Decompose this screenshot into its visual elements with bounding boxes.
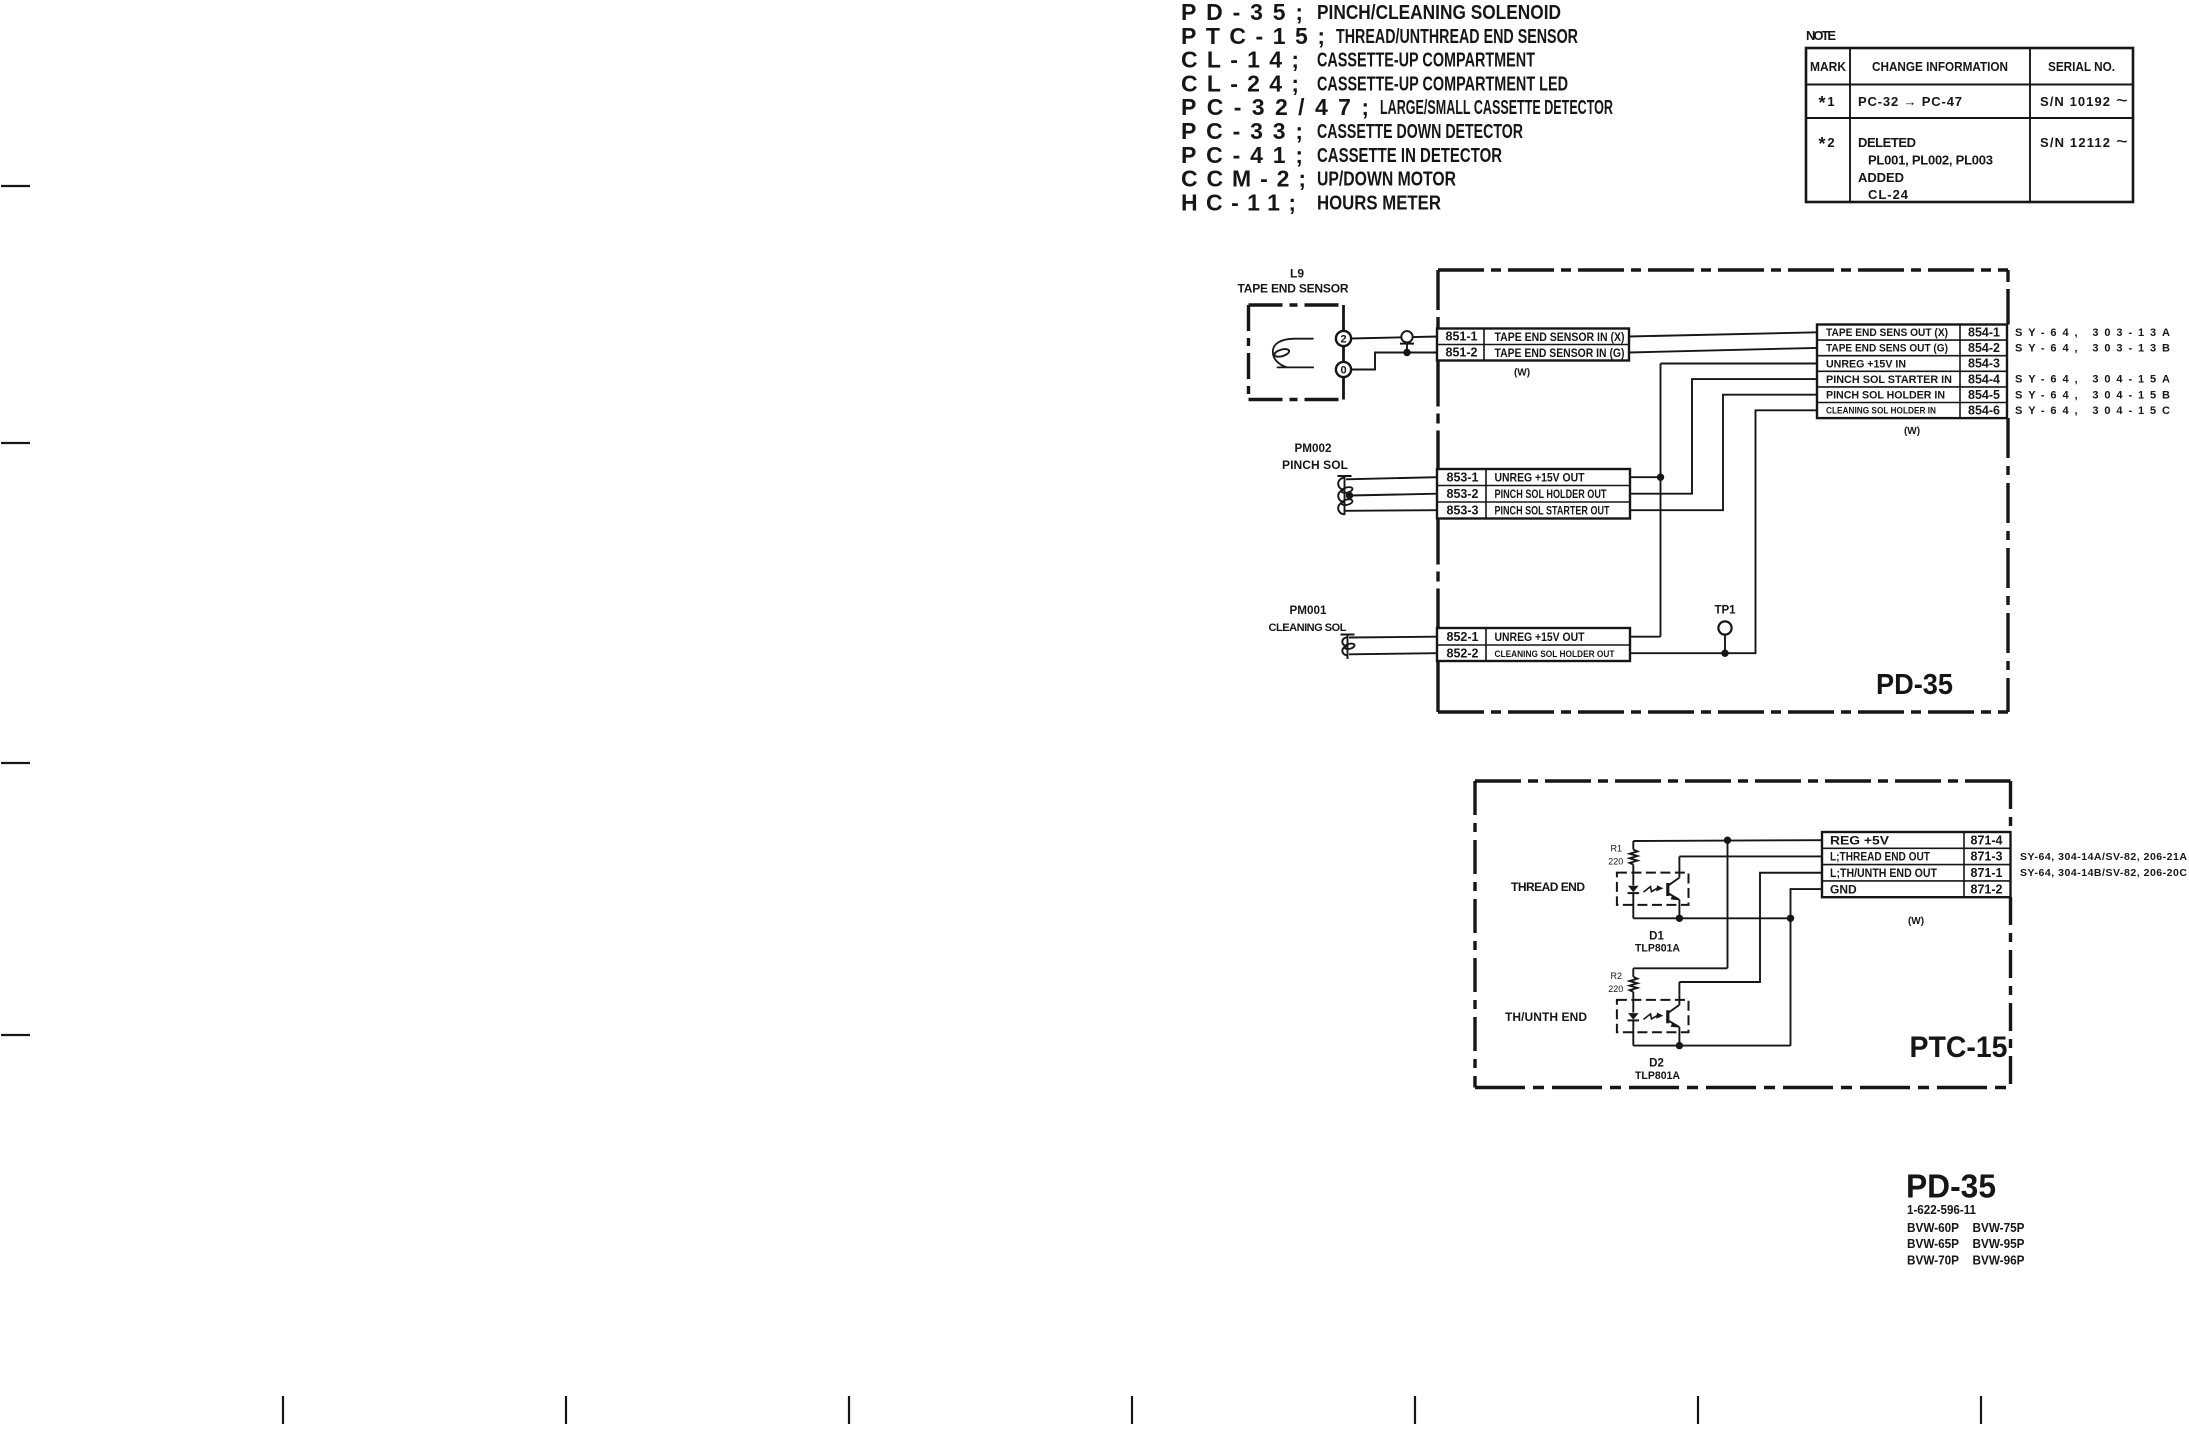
svg-text:L;TH/UNTH END OUT: L;TH/UNTH END OUT — [1830, 866, 1938, 880]
svg-text:UNREG +15V OUT: UNREG +15V OUT — [1495, 470, 1586, 484]
junction D1 emitter — [1676, 915, 1683, 922]
wire 853-3 to 854-5 — [1630, 395, 1817, 511]
connector 853 — [1437, 469, 1630, 519]
svg-text:CASSETTE IN DETECTOR: CASSETTE IN DETECTOR — [1317, 145, 1502, 167]
optocoupler D1 TLP801A — [1617, 873, 1689, 905]
svg-text:852-1: 852-1 — [1447, 630, 1479, 644]
PD-35 board outline — [1438, 268, 2008, 271]
svg-text:CASSETTE-UP COMPARTMENT: CASSETTE-UP COMPARTMENT — [1317, 50, 1535, 72]
wire REG +5V to R1 — [1633, 839, 1822, 842]
svg-text:R1: R1 — [1611, 844, 1623, 854]
svg-text:871-1: 871-1 — [1971, 866, 2003, 880]
svg-text:CLEANING SOL HOLDER IN: CLEANING SOL HOLDER IN — [1826, 406, 1936, 417]
junction GND riser at D1 bottom — [1787, 915, 1794, 922]
svg-text:*: * — [1818, 134, 1825, 154]
svg-text:PL001, PL002, PL003: PL001, PL002, PL003 — [1868, 153, 1993, 168]
svg-text:TLP801A: TLP801A — [1635, 943, 1680, 955]
svg-text:ADDED: ADDED — [1858, 170, 1904, 185]
svg-text:MARK: MARK — [1810, 59, 1847, 74]
svg-text:871-2: 871-2 — [1971, 882, 2003, 896]
wire GND riser — [1791, 889, 1823, 1046]
svg-text:2: 2 — [1340, 334, 1346, 346]
svg-text:1: 1 — [1827, 94, 1834, 109]
svg-text:PINCH SOL STARTER OUT: PINCH SOL STARTER OUT — [1495, 503, 1610, 517]
svg-text:D1: D1 — [1649, 930, 1664, 942]
wire terminal 0 to 851-2 — [1351, 353, 1438, 370]
svg-text:854-2: 854-2 — [1968, 341, 2000, 355]
svg-text:CASSETTE DOWN DETECTOR: CASSETTE DOWN DETECTOR — [1317, 121, 1523, 143]
svg-text:CASSETTE-UP COMPARTMENT LED: CASSETTE-UP COMPARTMENT LED — [1317, 73, 1568, 95]
svg-text:PD-35: PD-35 — [1876, 669, 1953, 701]
svg-text:853-1: 853-1 — [1447, 470, 1479, 484]
svg-text:851-2: 851-2 — [1446, 346, 1478, 360]
wire REG +5V down to R2 — [1727, 840, 1729, 968]
svg-text:(W): (W) — [1514, 368, 1530, 379]
wire terminal 2 to 851-1 — [1351, 337, 1438, 339]
svg-text:0: 0 — [1340, 365, 1346, 377]
connector 851 — [1437, 329, 1629, 361]
solenoid PM002 coil — [1344, 476, 1346, 515]
wire 852-2 to 854-6 — [1630, 410, 1817, 653]
wire 851-2 to 854-2 — [1629, 348, 1817, 353]
PTC-15 board outline — [1475, 779, 2011, 782]
svg-text:PM002: PM002 — [1295, 441, 1332, 455]
junction on PM002 center tap — [1346, 492, 1353, 499]
junction on 851-2 wire — [1403, 349, 1410, 356]
svg-text:TP1: TP1 — [1714, 605, 1736, 617]
svg-text:PINCH SOL HOLDER IN: PINCH SOL HOLDER IN — [1826, 390, 1945, 402]
svg-text:L9: L9 — [1290, 267, 1304, 281]
wire UNREG +15V bus (854-3 to 853-1 to 852-1) — [1661, 363, 1818, 365]
svg-text:SERIAL NO.: SERIAL NO. — [2048, 59, 2115, 74]
svg-text:SY-64, 304-14B/SV-82, 206-20C: SY-64, 304-14B/SV-82, 206-20C — [2020, 867, 2187, 879]
svg-text:UP/DOWN MOTOR: UP/DOWN MOTOR — [1317, 169, 1456, 191]
wire D1 collector to 871-3 — [1679, 855, 1822, 857]
svg-text:S/N 12112: S/N 12112 — [2040, 135, 2110, 150]
optocoupler D2 TLP801A — [1617, 1000, 1689, 1032]
lamp L9 enclosure — [1249, 303, 1344, 306]
solenoid PM001 coil — [1347, 635, 1349, 660]
junction REG +5V branch — [1724, 837, 1731, 844]
svg-text:BVW-65P: BVW-65P — [1907, 1237, 1959, 1251]
svg-text:854-1: 854-1 — [1968, 326, 2000, 340]
svg-text:BVW-95P: BVW-95P — [1973, 1237, 2025, 1251]
junction TP1 on 852-2 wire — [1721, 650, 1728, 657]
svg-text:CLEANING SOL HOLDER OUT: CLEANING SOL HOLDER OUT — [1495, 649, 1615, 660]
svg-text:R2: R2 — [1611, 971, 1623, 981]
svg-text:TAPE END SENSOR IN (G): TAPE END SENSOR IN (G) — [1495, 346, 1625, 360]
svg-text:PTC-15: PTC-15 — [1910, 1031, 2008, 1064]
svg-text:PINCH SOL HOLDER OUT: PINCH SOL HOLDER OUT — [1495, 487, 1607, 501]
svg-text:HOURS METER: HOURS METER — [1317, 192, 1441, 214]
svg-text:THREAD/UNTHREAD END SENSOR: THREAD/UNTHREAD END SENSOR — [1336, 26, 1578, 48]
wire D1 bottom to GND riser — [1633, 917, 1790, 919]
svg-text:871-3: 871-3 — [1971, 850, 2003, 864]
svg-text:220: 220 — [1608, 984, 1623, 994]
svg-text:853-3: 853-3 — [1447, 503, 1479, 517]
svg-text:TAPE END SENSOR IN (X): TAPE END SENSOR IN (X) — [1495, 330, 1625, 344]
svg-text:PD-35: PD-35 — [1906, 1168, 1996, 1205]
svg-text:D2: D2 — [1649, 1058, 1664, 1070]
svg-text:PINCH/CLEANING SOLENOID: PINCH/CLEANING SOLENOID — [1317, 2, 1561, 24]
svg-text:854-5: 854-5 — [1968, 388, 2000, 402]
chassis pickup symbol — [1401, 331, 1412, 342]
wire D2 bottom to GND riser — [1633, 1045, 1790, 1047]
svg-text:LARGE/SMALL CASSETTE DETECTOR: LARGE/SMALL CASSETTE DETECTOR — [1380, 97, 1613, 119]
svg-text:SY-64, 304-14A/SV-82, 206-21A: SY-64, 304-14A/SV-82, 206-21A — [2020, 851, 2187, 863]
terminal 0 — [1336, 362, 1351, 377]
svg-text:PM001: PM001 — [1290, 603, 1327, 617]
connector 854 — [1817, 325, 2007, 419]
terminal 2 — [1336, 331, 1351, 346]
svg-text:TAPE END SENS OUT (X): TAPE END SENS OUT (X) — [1826, 327, 1948, 339]
svg-text:854-4: 854-4 — [1968, 372, 2000, 386]
svg-text:DELETED: DELETED — [1858, 135, 1916, 150]
svg-text:2: 2 — [1827, 135, 1834, 150]
wire 853-2 to 854-4 — [1630, 379, 1817, 494]
svg-text:UNREG +15V OUT: UNREG +15V OUT — [1495, 630, 1586, 644]
svg-text:871-4: 871-4 — [1971, 833, 2003, 847]
svg-text:(W): (W) — [1904, 426, 1920, 437]
svg-text:(W): (W) — [1908, 916, 1924, 927]
svg-text:220: 220 — [1608, 857, 1623, 867]
svg-text:TLP801A: TLP801A — [1635, 1070, 1680, 1082]
svg-text:NOTE: NOTE — [1806, 28, 1836, 43]
svg-text:852-2: 852-2 — [1447, 646, 1479, 660]
wires PM001 to 852 — [1349, 636, 1437, 639]
svg-text:854-3: 854-3 — [1968, 357, 2000, 371]
svg-text:~: ~ — [2116, 131, 2128, 153]
svg-text:BVW-96P: BVW-96P — [1973, 1253, 2025, 1267]
svg-text:GND: GND — [1830, 882, 1857, 896]
junction 853-1 on +15V bus — [1657, 474, 1664, 481]
svg-text:PC-32 → PC-47: PC-32 → PC-47 — [1858, 94, 1962, 109]
connector 871 — [1822, 832, 2011, 897]
svg-text:CHANGE INFORMATION: CHANGE INFORMATION — [1872, 59, 2008, 74]
svg-text:CLEANING SOL: CLEANING SOL — [1269, 622, 1347, 634]
wire D2 collector to 871-1 — [1679, 873, 1822, 982]
svg-text:*: * — [1818, 93, 1825, 113]
svg-text:851-1: 851-1 — [1446, 330, 1478, 344]
lamp L9 filament — [1273, 339, 1314, 368]
junction D2 emitter — [1676, 1042, 1683, 1049]
wires PM002 to 853 — [1346, 477, 1437, 479]
svg-text:BVW-70P: BVW-70P — [1907, 1253, 1959, 1267]
svg-text:BVW-75P: BVW-75P — [1973, 1221, 2025, 1235]
svg-text:L;THREAD END OUT: L;THREAD END OUT — [1830, 850, 1931, 864]
svg-text:PC-32/47;: PC-32/47; — [1181, 94, 1369, 120]
svg-text:PINCH SOL STARTER IN: PINCH SOL STARTER IN — [1826, 374, 1952, 386]
svg-text:1-622-596-11: 1-622-596-11 — [1907, 1203, 1976, 1217]
svg-text:854-6: 854-6 — [1968, 404, 2000, 418]
svg-text:~: ~ — [2116, 90, 2128, 112]
svg-text:UNREG +15V IN: UNREG +15V IN — [1826, 358, 1906, 370]
svg-text:PINCH SOL: PINCH SOL — [1282, 458, 1348, 472]
svg-text:853-2: 853-2 — [1447, 487, 1479, 501]
svg-text:TAPE END SENS OUT (G): TAPE END SENS OUT (G) — [1826, 343, 1948, 355]
svg-text:REG +5V: REG +5V — [1830, 833, 1889, 847]
svg-text:THREAD END: THREAD END — [1511, 880, 1585, 894]
svg-text:S/N 10192: S/N 10192 — [2040, 94, 2110, 109]
svg-text:CL-24: CL-24 — [1868, 187, 1909, 202]
wire 851-1 to 854-1 — [1629, 332, 1817, 336]
svg-text:TH/UNTH END: TH/UNTH END — [1505, 1010, 1587, 1024]
svg-text:TAPE END SENSOR: TAPE END SENSOR — [1238, 282, 1349, 296]
svg-text:BVW-60P: BVW-60P — [1907, 1221, 1959, 1235]
connector 852 — [1437, 628, 1630, 661]
